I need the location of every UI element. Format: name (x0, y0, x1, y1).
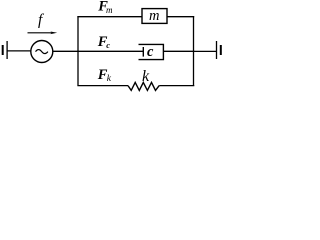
AC source tilde (36, 50, 48, 54)
AC source U1 circle (31, 41, 53, 63)
wire left wall to source (7, 50, 31, 52)
middle branch wire left (78, 50, 144, 52)
right rail wire (193, 16, 195, 86)
svg-text:m: m (149, 8, 159, 24)
mass box m (142, 9, 167, 24)
wire source to left rail (53, 50, 78, 52)
top branch wire right (167, 16, 194, 18)
middle branch wire right (163, 50, 194, 52)
left rail wire (77, 16, 79, 86)
wire right rail to right wall (194, 50, 217, 52)
bottom branch wire right (159, 85, 194, 87)
left wall thick bar (2, 45, 4, 55)
right wall thick bar (220, 45, 222, 55)
left wall anchor line (6, 41, 8, 59)
right wall anchor line (216, 41, 218, 59)
svg-text:c: c (147, 44, 154, 60)
svg-text:c: c (106, 40, 110, 50)
svg-text:m: m (106, 5, 113, 15)
bottom branch wire left (77, 85, 128, 87)
arrow of motion (28, 32, 53, 34)
svg-text:k: k (142, 68, 150, 85)
top branch wire left (77, 16, 142, 18)
damper cylinder (139, 44, 164, 59)
spring k zigzag (128, 82, 159, 90)
damper piston (142, 47, 144, 57)
